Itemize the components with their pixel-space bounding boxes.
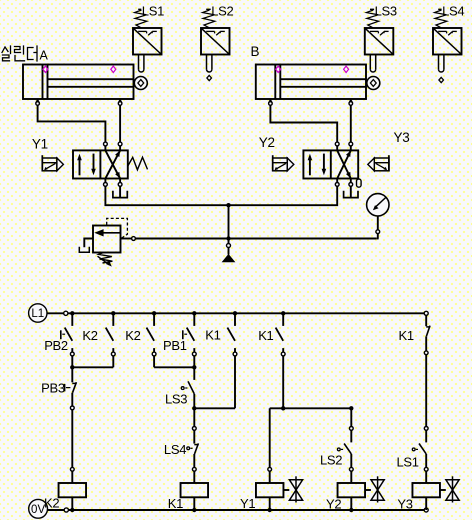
- svg-text:B: B: [251, 44, 260, 59]
- svg-text:LS4: LS4: [164, 442, 186, 457]
- svg-text:K1: K1: [168, 496, 183, 511]
- svg-text:LS3: LS3: [375, 4, 397, 19]
- svg-text:LS3: LS3: [165, 391, 187, 406]
- svg-text:LS2: LS2: [211, 4, 233, 19]
- svg-text:Y2: Y2: [259, 135, 275, 150]
- svg-text:PB1: PB1: [163, 338, 187, 353]
- svg-text:Y1: Y1: [240, 496, 255, 511]
- svg-text:K1: K1: [258, 328, 273, 343]
- svg-text:K1: K1: [205, 328, 220, 343]
- svg-text:Y3: Y3: [397, 497, 412, 512]
- svg-text:LS1: LS1: [142, 4, 164, 19]
- svg-text:LS1: LS1: [397, 454, 419, 469]
- svg-text:Y3: Y3: [394, 130, 410, 145]
- svg-text:K2: K2: [44, 496, 59, 511]
- svg-text:PB2: PB2: [44, 338, 68, 353]
- svg-text:K2: K2: [125, 328, 140, 343]
- svg-text:Y1: Y1: [32, 137, 48, 152]
- svg-text:PB3: PB3: [41, 381, 65, 396]
- svg-text:LS4: LS4: [442, 4, 464, 19]
- svg-text:K1: K1: [399, 328, 414, 343]
- svg-text:Y2: Y2: [326, 497, 341, 512]
- svg-text:L1: L1: [31, 308, 44, 320]
- svg-text:K2: K2: [82, 328, 97, 343]
- svg-text:LS2: LS2: [320, 453, 342, 468]
- svg-text:A: A: [40, 49, 49, 63]
